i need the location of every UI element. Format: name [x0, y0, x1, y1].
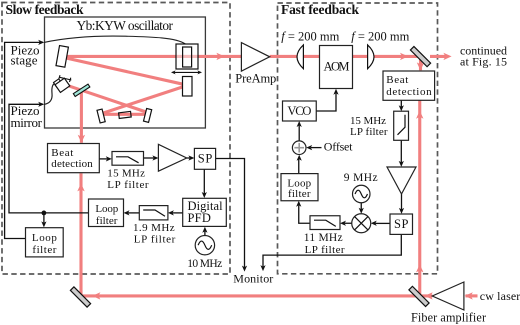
- svg-text:mirror: mirror: [11, 115, 43, 130]
- svg-text:f = 200 mm: f = 200 mm: [281, 30, 339, 44]
- svg-text:Beat: Beat: [386, 74, 408, 86]
- svg-text:LP filter: LP filter: [350, 126, 388, 138]
- svg-text:Fast feedback: Fast feedback: [281, 2, 359, 17]
- svg-text:Fiber amplifier: Fiber amplifier: [411, 311, 486, 325]
- svg-text:Monitor: Monitor: [233, 271, 273, 285]
- svg-text:AOM: AOM: [324, 60, 350, 74]
- svg-text:Loop: Loop: [95, 203, 118, 215]
- svg-text:9 MHz: 9 MHz: [344, 172, 378, 184]
- svg-text:detection: detection: [386, 86, 432, 98]
- svg-text:PFD: PFD: [188, 211, 211, 225]
- svg-text:cw laser: cw laser: [480, 289, 520, 303]
- svg-text:f = 200 mm: f = 200 mm: [351, 30, 409, 44]
- svg-text:LP filter: LP filter: [134, 234, 176, 246]
- svg-text:PreAmp: PreAmp: [235, 72, 276, 86]
- svg-text:Yb:KYW oscillator: Yb:KYW oscillator: [77, 18, 174, 33]
- svg-text:filter: filter: [32, 244, 56, 256]
- svg-text:detection: detection: [51, 158, 93, 170]
- svg-text:VCO: VCO: [287, 104, 311, 118]
- svg-text:1.9 MHz: 1.9 MHz: [133, 222, 175, 234]
- svg-text:LP filter: LP filter: [305, 244, 345, 256]
- svg-text:LP filter: LP filter: [107, 179, 149, 191]
- svg-text:10 MHz: 10 MHz: [187, 258, 222, 270]
- svg-text:filter: filter: [288, 188, 311, 200]
- svg-text:SP: SP: [394, 217, 409, 231]
- svg-text:11 MHz: 11 MHz: [304, 232, 343, 244]
- svg-text:Slow feedback: Slow feedback: [6, 2, 84, 17]
- svg-text:at Fig. 15: at Fig. 15: [460, 55, 507, 69]
- svg-text:filter: filter: [96, 215, 118, 227]
- svg-text:SP: SP: [198, 151, 213, 165]
- svg-text:Loop: Loop: [32, 232, 58, 244]
- svg-text:15 MHz: 15 MHz: [107, 168, 145, 180]
- svg-text:Offset: Offset: [324, 139, 353, 153]
- svg-text:stage: stage: [11, 53, 38, 68]
